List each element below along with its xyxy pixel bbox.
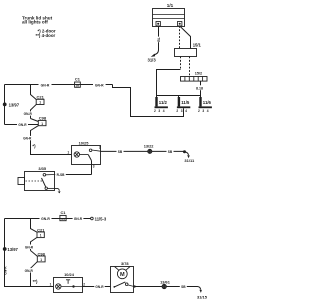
svg-text:13/61: 13/61 <box>160 279 171 284</box>
junction dot <box>183 150 186 153</box>
wire horizontal to feed vertical <box>157 70 181 96</box>
svg-text:1: 1 <box>40 258 42 262</box>
svg-text:234: 234 <box>176 109 189 113</box>
svg-text:24: 24 <box>61 217 65 221</box>
bulb unit 11/5 <box>177 96 190 109</box>
svg-text:all lights off: all lights off <box>22 20 48 25</box>
wire color label SB <box>180 284 187 289</box>
svg-text:1: 1 <box>41 122 43 126</box>
svg-text:GN-R: GN-R <box>41 83 50 87</box>
svg-text:C1: C1 <box>61 210 67 215</box>
lamp unit 10/24 box <box>54 278 83 293</box>
svg-text:2: 2 <box>99 145 101 149</box>
wire C21 to C98 lower <box>31 237 38 250</box>
wire out of C98 lower down <box>31 262 38 287</box>
svg-text:11/5: 11/5 <box>181 100 190 105</box>
wire into C98 lower <box>31 251 38 257</box>
wire color label GN-R <box>23 111 32 116</box>
svg-text:15/2: 15/2 <box>195 72 202 76</box>
wire from 15/2 down to bus <box>200 81 202 95</box>
pin tick of 3/78 <box>134 285 136 288</box>
wire 10/25 pin2 to ground 31/11 <box>101 150 185 152</box>
svg-text:**) 4-door: **) 4-door <box>36 33 56 38</box>
wire color label GN-R <box>40 216 52 222</box>
svg-text:13/97: 13/97 <box>7 247 18 252</box>
lamp symbol in 10/24 <box>56 284 61 289</box>
wire C21 to C98 <box>31 104 37 118</box>
terminal circle to 11/5-3 <box>91 217 94 220</box>
svg-text:28: 28 <box>76 83 80 87</box>
rail wire left upper <box>4 85 6 125</box>
wire out of C98 down to lamp 10/25 <box>31 126 72 155</box>
wire to ground 31/3 <box>154 50 159 55</box>
terminal pin left of 1/1 <box>156 22 160 26</box>
svg-text:GN-R: GN-R <box>25 269 34 273</box>
motor unit 3/78 box <box>111 267 134 293</box>
svg-text:GN-R: GN-R <box>18 123 27 127</box>
svg-text:C1: C1 <box>75 77 81 82</box>
svg-text:BL: BL <box>157 37 161 42</box>
svg-text:1: 1 <box>39 101 41 105</box>
wire color label GN-R <box>24 245 33 250</box>
node 13/97 <box>3 103 7 107</box>
wire diagonal from 1/1 right terminal <box>180 26 191 49</box>
switch in 10/25 <box>80 149 101 161</box>
bulb unit 11/2 <box>155 96 168 109</box>
wire color label GN-R <box>23 136 32 141</box>
svg-text:13/97: 13/97 <box>9 103 20 108</box>
svg-text:3: 3 <box>93 165 95 169</box>
wire down to connector C21 lower <box>31 219 38 233</box>
switch in 3/78 <box>113 282 133 288</box>
wire color label R-SB <box>55 172 66 177</box>
node 13/97 lower <box>3 247 7 251</box>
svg-text:GN-R: GN-R <box>23 137 32 141</box>
svg-text:1: 1 <box>40 234 42 238</box>
svg-text:31/15: 31/15 <box>197 294 208 299</box>
lamp unit 10/25 box <box>72 146 101 165</box>
wire dashed below 15/1 right pin <box>189 57 191 77</box>
relay 1/1 box <box>153 9 185 27</box>
ground hook 31/11 <box>185 152 190 158</box>
ground arrow 31/3 <box>151 54 156 57</box>
svg-text:11/2: 11/2 <box>159 100 168 105</box>
svg-text:11/5-3: 11/5-3 <box>95 216 107 221</box>
terminal pin right of 1/1 <box>178 22 182 26</box>
ground hook of 3/35 <box>55 188 61 193</box>
wire color label GN-R <box>73 216 84 221</box>
wire from top feed down to connector C21 <box>31 85 37 100</box>
svg-text:M: M <box>120 272 125 278</box>
wire dashed below 15/1 left pin <box>180 57 182 70</box>
bulb unit 11/6 <box>199 96 212 109</box>
wire dashed from 1/1 right terminal to 15/1 <box>179 26 181 49</box>
svg-text:15/1: 15/1 <box>193 42 202 47</box>
wire color label SB <box>167 149 174 154</box>
svg-text:GN-R: GN-R <box>4 266 8 275</box>
ground hook 31/15 <box>198 287 202 293</box>
svg-text:234: 234 <box>154 109 167 113</box>
junction 13/22 <box>148 149 152 153</box>
connector C1 lower <box>60 215 66 220</box>
svg-text:11/6: 11/6 <box>203 100 212 105</box>
connector C1 <box>75 82 81 87</box>
wire color label GN-R <box>24 268 33 273</box>
svg-text:*): *) <box>32 144 36 149</box>
svg-text:SB: SB <box>118 150 123 154</box>
svg-text:10/24: 10/24 <box>64 272 75 277</box>
svg-text:GN-R: GN-R <box>41 217 50 221</box>
label 8.18 <box>195 85 204 90</box>
connector C98 <box>38 120 46 125</box>
svg-text:SB: SB <box>168 150 173 154</box>
rail wire left lower <box>5 219 54 287</box>
lamp symbol in 10/25 <box>74 152 79 157</box>
svg-text:GN-R: GN-R <box>24 112 33 116</box>
svg-text:3/78: 3/78 <box>121 261 129 266</box>
svg-text:31/3: 31/3 <box>148 58 157 63</box>
svg-text:1: 1 <box>50 283 52 287</box>
fuse strip 15/2 box <box>181 77 208 82</box>
wire color label BL <box>156 37 161 43</box>
wire color label GN-R <box>93 82 106 88</box>
bus wire over bulbs <box>157 95 201 97</box>
svg-text:SB: SB <box>181 285 186 289</box>
wire 3/78 to ground 31/15 <box>134 286 198 288</box>
wire top feed lower section <box>5 218 91 220</box>
wire rail bottom horizontal <box>5 124 39 126</box>
wire color label GN-R <box>39 82 52 88</box>
svg-text:C98: C98 <box>39 116 47 121</box>
svg-text:10/25: 10/25 <box>79 141 90 146</box>
wire top feed of trunk circuit <box>5 84 113 86</box>
svg-text:1/1: 1/1 <box>167 3 174 8</box>
connector C21 lower <box>37 232 44 238</box>
svg-text:13/22: 13/22 <box>144 144 155 149</box>
svg-text:GN-R: GN-R <box>95 285 104 289</box>
note text: Trunk lid shut / all lights off <box>22 15 53 24</box>
svg-text:31/11: 31/11 <box>184 158 195 163</box>
wire color label GN-R <box>17 122 28 127</box>
wire from 1/1 left terminal down <box>158 26 160 50</box>
connector C21 <box>36 99 44 104</box>
svg-text:GN-R: GN-R <box>74 217 83 221</box>
svg-text:GN-R: GN-R <box>95 84 104 88</box>
wire 10/24 to 3/78 <box>83 286 111 288</box>
junction 13/61 <box>162 284 166 288</box>
svg-text:8.18: 8.18 <box>196 87 203 91</box>
svg-text:1: 1 <box>67 151 69 155</box>
svg-text:234: 234 <box>198 109 211 113</box>
fuse holder 15/1 box <box>175 49 197 57</box>
switch contacts in 3/35 <box>42 174 55 190</box>
wire color label SB <box>117 149 124 154</box>
motor M symbol <box>115 267 131 279</box>
connector C98 lower <box>37 256 45 262</box>
pin 3 wire of 10/25 down <box>91 161 93 175</box>
svg-text:3/35: 3/35 <box>38 166 46 171</box>
switch 3/35 box <box>18 172 55 191</box>
wire 10/25 pin3 to switch 3/35 <box>55 174 92 176</box>
wire color label GN-R <box>94 284 104 289</box>
wire into C98 <box>31 119 39 122</box>
svg-text:GN-R: GN-R <box>25 245 34 249</box>
switch T in 10/24 <box>61 280 83 288</box>
svg-text:**): **) <box>33 279 38 284</box>
wire staircase from 11/5 pin 3 to trunk feed <box>113 85 184 117</box>
svg-text:R-SB: R-SB <box>57 173 65 177</box>
